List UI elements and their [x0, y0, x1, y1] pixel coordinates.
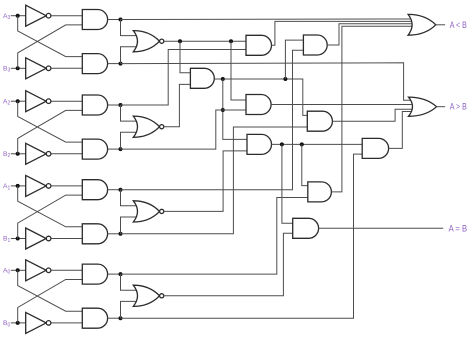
- wire L1 to E3E2L1 AND: [121, 50, 304, 189]
- svg-text:A1: A1: [3, 183, 10, 191]
- AND gate E3·E2·G1: [307, 111, 332, 131]
- junction E3E2 tap to E3E2E1 AND: [221, 77, 225, 81]
- wire L2 output: [108, 104, 121, 106]
- wire B3 crossover to upper AND: [18, 25, 83, 68]
- junction L0: [119, 272, 123, 276]
- AND gate E3·E2·L1: [303, 35, 327, 55]
- svg-text:A0: A0: [3, 268, 10, 276]
- wire L1 to NOR input: [121, 190, 139, 206]
- wire E3E2E1L0 to A<B OR: [331, 26, 411, 192]
- wire G0 output: [108, 317, 121, 319]
- junction on E3G2 AND input line: [221, 108, 225, 112]
- wire NOT-A3 output: [52, 15, 83, 17]
- wire E3E2G1 to A>B OR: [332, 109, 411, 121]
- wire NOT-B0 output: [52, 322, 83, 324]
- wire G3 to NOR input: [121, 47, 139, 64]
- wire NOT-A0 output: [52, 269, 83, 271]
- wire A3 crossover to lower AND: [18, 16, 83, 57]
- AND gate A2·B2' (G2): [82, 139, 107, 159]
- wire E3G2 to A>B OR: [271, 104, 411, 106]
- junction B1: [16, 237, 20, 241]
- wire E3L2 to A<B OR: [272, 21, 412, 45]
- wire E3 down to E3G2 AND: [231, 41, 246, 100]
- AND gate A1'·B1 (L1): [82, 180, 107, 200]
- wire G2 to E3G2 AND: [121, 110, 247, 149]
- wire B1 crossover to upper AND: [18, 195, 83, 238]
- inverter NOT-A3: [26, 5, 47, 26]
- wire G1 to E3E2G1 AND: [121, 127, 308, 234]
- wire E3E2 up to E3E2L1 AND: [285, 40, 303, 79]
- wire B2 crossover to upper AND: [18, 110, 83, 153]
- wire E3 (NOR3 output) to AND-E3L2: [164, 40, 246, 42]
- inverter NOT-A1: [26, 175, 47, 196]
- wire G0 to E3E2E1G0 AND: [121, 154, 363, 318]
- wire NOT-B2 output: [52, 153, 83, 155]
- AND gate A3'·B3 (L3): [82, 10, 107, 30]
- wire L0 to E3E2E1L0 AND: [121, 198, 308, 275]
- svg-text:B0: B0: [3, 320, 10, 328]
- wire L3 to NOR input: [121, 20, 139, 36]
- AND gate A3·B3' (G3): [82, 54, 107, 74]
- svg-text:B3: B3: [3, 66, 10, 74]
- or-gate A>B (4-input): [409, 97, 437, 116]
- wire NOT-A2 output: [52, 100, 83, 102]
- wire NOT-B3 output: [52, 67, 83, 69]
- AND gate E3·E2·E1·G0: [362, 138, 388, 158]
- wire A<B output: [436, 24, 445, 26]
- wire G0 to NOR input: [121, 301, 139, 318]
- wire L2 to E3L2 AND: [121, 50, 247, 106]
- NOR gate E2 (bit 2 equality): [133, 116, 159, 137]
- NOR gate E3 (bit 3 equality): [133, 31, 159, 52]
- wire E3E2 down to E3E2E1 AND: [223, 79, 247, 139]
- wire L0 to NOR input: [121, 274, 139, 290]
- NOR gate E1 (bit 1 equality): [133, 201, 159, 222]
- junction A0: [16, 268, 20, 272]
- wire G3 to A>B OR: [121, 63, 412, 101]
- or-gate A<B (4-input): [408, 14, 436, 35]
- wire A2 crossover to lower AND: [18, 101, 83, 142]
- wire B1 input stub: [11, 238, 26, 240]
- wire G2 to NOR input: [121, 132, 139, 149]
- junction E3E2E1 tap to E3E2E1L0 AND: [300, 142, 304, 146]
- wire NOT-B1 output: [52, 238, 83, 240]
- wire A1 crossover to lower AND: [18, 186, 83, 227]
- junction G1: [119, 232, 123, 236]
- wire E3E2 output run: [214, 79, 307, 115]
- junction G3: [119, 62, 123, 66]
- wire B3 input stub: [11, 67, 26, 69]
- wire B2 input stub: [11, 153, 26, 155]
- junction E3E2 tap to E3E2L1 AND: [283, 77, 287, 81]
- wire L3 to A<B OR: [121, 18, 412, 21]
- junction E3 tap to E3G2 AND: [229, 39, 233, 43]
- junction B2: [16, 152, 20, 156]
- wire NOT-A1 output: [52, 185, 83, 187]
- svg-text:A3: A3: [3, 13, 10, 21]
- svg-text:A < B: A < B: [450, 20, 467, 30]
- wire A>B output: [437, 106, 446, 108]
- AND gate E3·E2: [190, 68, 214, 88]
- wire G2 output: [108, 148, 121, 150]
- AND gate E3·L2: [246, 35, 272, 55]
- inverter NOT-A2: [26, 91, 47, 112]
- junction L2: [119, 103, 123, 107]
- wire L2 to NOR input: [121, 105, 139, 121]
- wire E3 down to E3E2 AND: [180, 41, 190, 73]
- junction L1: [119, 188, 123, 192]
- junction G2: [119, 147, 123, 151]
- wire E0 to A=B AND: [164, 233, 293, 295]
- junction A1: [16, 184, 20, 188]
- wire E1 to E3E2E1 AND: [164, 151, 247, 212]
- svg-text:A2: A2: [3, 98, 10, 106]
- AND gate E3·G2: [246, 95, 271, 115]
- junction G0: [119, 316, 123, 320]
- wire A=B output: [319, 227, 444, 229]
- NOR gate E0 (bit 0 equality): [133, 285, 159, 306]
- wire A0 crossover to lower AND: [18, 270, 83, 311]
- svg-text:B1: B1: [3, 236, 10, 244]
- junction E3 tap to E3E2 AND: [178, 39, 182, 43]
- AND gate A1·B1' (G1): [82, 224, 107, 244]
- wire E3E2E1 output run: [272, 143, 363, 145]
- wire G1 output: [108, 233, 121, 235]
- junction A3: [16, 14, 20, 18]
- wire L1 output: [108, 189, 121, 191]
- wire E2 to E3E2 AND: [164, 84, 191, 126]
- wire A2 input stub: [11, 100, 26, 102]
- wire E3E2E1G0 to A>B OR: [389, 112, 412, 149]
- wire A3 input stub: [11, 15, 26, 17]
- wire A1 input stub: [11, 185, 26, 187]
- wire E3E2E1 down to A=B AND: [282, 144, 293, 223]
- svg-text:B2: B2: [3, 151, 10, 159]
- wire G1 to NOR input: [121, 217, 139, 234]
- AND gate E3·E2·E1·L0: [308, 182, 332, 202]
- inverter NOT-A0: [26, 260, 47, 281]
- AND gate A=B (E3E2E1·E0): [293, 218, 319, 238]
- junction L3: [119, 18, 123, 22]
- wire E3E2E1 down to E3E2E1L0 AND: [302, 144, 308, 185]
- wire B0 crossover to upper AND: [18, 280, 83, 323]
- wire E3E2L1 to A<B OR: [327, 24, 411, 45]
- AND gate E3·E2·E1: [247, 134, 272, 154]
- AND gate A0·B0' (G0): [82, 308, 107, 328]
- wire L0 output: [108, 273, 121, 275]
- svg-text:A > B: A > B: [450, 102, 467, 112]
- inverter NOT-B3: [26, 58, 47, 79]
- inverter NOT-B1: [26, 228, 47, 249]
- wire B0 input stub: [11, 322, 26, 324]
- junction E3E2E1 tap to A=B AND: [280, 142, 284, 146]
- wire A0 input stub: [11, 269, 26, 271]
- AND gate A0'·B0 (L0): [82, 264, 107, 284]
- svg-text:A = B: A = B: [449, 223, 468, 233]
- inverter NOT-B2: [26, 143, 47, 164]
- junction B0: [16, 321, 20, 325]
- inverter NOT-B0: [26, 312, 47, 333]
- junction A2: [16, 99, 20, 103]
- wire G3 output: [108, 63, 121, 65]
- junction B3: [16, 66, 20, 70]
- wire L3 output: [108, 19, 121, 21]
- AND gate A2'·B2 (L2): [82, 95, 107, 115]
